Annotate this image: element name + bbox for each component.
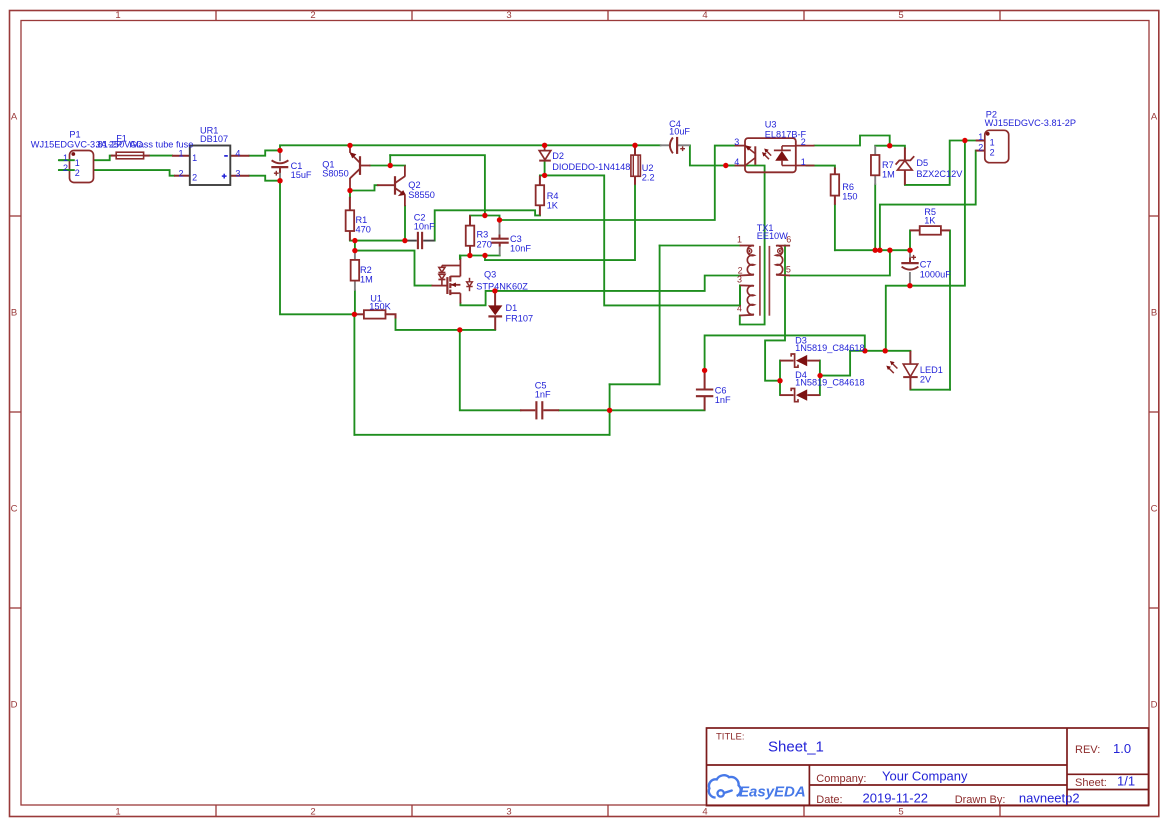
- svg-text:1N5819_C84618: 1N5819_C84618: [795, 343, 864, 353]
- svg-text:2: 2: [75, 168, 80, 178]
- svg-text:navneetp2: navneetp2: [1019, 791, 1080, 806]
- svg-text:A: A: [11, 112, 18, 123]
- svg-text:150K: 150K: [369, 301, 391, 311]
- svg-text:10nF: 10nF: [414, 222, 435, 232]
- svg-text:2V: 2V: [920, 375, 932, 385]
- svg-text:2: 2: [310, 10, 315, 21]
- svg-text:R2: R2: [360, 265, 372, 275]
- svg-text:2019-11-22: 2019-11-22: [863, 791, 929, 806]
- svg-text:Company:: Company:: [816, 773, 866, 785]
- svg-text:Date:: Date:: [816, 794, 842, 806]
- svg-text:Sheet_1: Sheet_1: [768, 739, 824, 756]
- svg-text:LED1: LED1: [920, 365, 943, 375]
- svg-text:Your Company: Your Company: [882, 769, 968, 784]
- svg-text:1: 1: [178, 149, 183, 159]
- svg-text:2: 2: [990, 148, 995, 158]
- svg-text:U2: U2: [642, 163, 654, 173]
- svg-text:1: 1: [115, 10, 120, 21]
- svg-text:5: 5: [898, 10, 903, 21]
- svg-text:R6: R6: [842, 182, 854, 192]
- svg-text:R4: R4: [547, 191, 559, 201]
- svg-text:150: 150: [842, 191, 857, 201]
- svg-text:1nF: 1nF: [535, 389, 551, 399]
- svg-text:2: 2: [801, 137, 806, 147]
- svg-text:Sheet:: Sheet:: [1075, 777, 1107, 789]
- svg-text:1: 1: [192, 153, 197, 163]
- svg-text:1K: 1K: [547, 200, 559, 210]
- svg-text:U3: U3: [765, 120, 777, 130]
- svg-text:TITLE:: TITLE:: [716, 732, 745, 743]
- svg-text:R1: R1: [356, 215, 368, 225]
- svg-text:D: D: [11, 700, 18, 711]
- svg-text:1000uF: 1000uF: [920, 270, 952, 280]
- svg-text:2: 2: [192, 173, 197, 183]
- svg-text:2: 2: [978, 142, 983, 152]
- svg-text:10uF: 10uF: [669, 126, 690, 136]
- svg-text:Q3: Q3: [484, 270, 496, 280]
- svg-text:FR107: FR107: [506, 314, 534, 324]
- svg-text:Q2: Q2: [408, 180, 420, 190]
- svg-text:3: 3: [734, 137, 739, 147]
- svg-text:C: C: [1151, 504, 1158, 515]
- svg-text:C3: C3: [510, 234, 522, 244]
- svg-text:EE10W: EE10W: [757, 231, 788, 241]
- svg-text:3: 3: [506, 10, 511, 21]
- svg-text:270: 270: [477, 240, 492, 250]
- svg-text:1: 1: [801, 157, 806, 167]
- svg-text:EasyEDA: EasyEDA: [739, 784, 806, 801]
- svg-text:1/1: 1/1: [1117, 774, 1135, 789]
- svg-text:D1: D1: [506, 303, 518, 313]
- svg-text:BZX2C12V: BZX2C12V: [916, 169, 963, 179]
- svg-text:1nF: 1nF: [715, 395, 731, 405]
- svg-text:F1: F1: [116, 133, 127, 143]
- svg-text:2.2: 2.2: [642, 173, 655, 183]
- svg-text:2: 2: [63, 163, 68, 173]
- svg-text:A: A: [1151, 112, 1158, 123]
- svg-text:C7: C7: [920, 260, 932, 270]
- svg-text:1.0: 1.0: [1113, 741, 1131, 756]
- svg-text:6: 6: [786, 235, 791, 245]
- svg-text:R7: R7: [882, 160, 894, 170]
- svg-text:4: 4: [702, 807, 707, 818]
- svg-text:1: 1: [990, 137, 995, 147]
- svg-text:DIODEDO-1N4148: DIODEDO-1N4148: [552, 162, 630, 172]
- svg-text:P1: P1: [69, 130, 80, 140]
- svg-text:10nF: 10nF: [510, 244, 531, 254]
- svg-text:4: 4: [702, 10, 707, 21]
- svg-text:1: 1: [978, 132, 983, 142]
- svg-text:DB107: DB107: [200, 134, 228, 144]
- svg-text:D: D: [1151, 700, 1158, 711]
- svg-text:B: B: [11, 308, 17, 319]
- svg-text:2: 2: [178, 169, 183, 179]
- svg-text:C6: C6: [715, 385, 727, 395]
- svg-text:5: 5: [786, 264, 791, 274]
- svg-text:1M: 1M: [360, 275, 373, 285]
- svg-text:3: 3: [737, 274, 742, 284]
- svg-text:Glass tube fuse: Glass tube fuse: [130, 140, 194, 150]
- svg-text:3: 3: [506, 807, 511, 818]
- svg-text:2: 2: [310, 807, 315, 818]
- svg-text:STP4NK60Z: STP4NK60Z: [476, 281, 528, 291]
- svg-text:1: 1: [737, 235, 742, 245]
- svg-text:4: 4: [235, 149, 240, 159]
- svg-text:C: C: [11, 504, 18, 515]
- svg-text:3: 3: [235, 169, 240, 179]
- svg-text:REV:: REV:: [1075, 744, 1100, 756]
- svg-text:1M: 1M: [882, 169, 895, 179]
- svg-text:4: 4: [734, 157, 739, 167]
- svg-text:1: 1: [75, 158, 80, 168]
- svg-text:S8550: S8550: [408, 190, 435, 200]
- svg-text:WJ15EDGVC-3.81-2P: WJ15EDGVC-3.81-2P: [985, 118, 1076, 128]
- svg-text:D5: D5: [916, 158, 928, 168]
- svg-text:15uF: 15uF: [291, 170, 312, 180]
- svg-text:1K: 1K: [924, 216, 936, 226]
- svg-text:4: 4: [737, 304, 742, 314]
- svg-text:R3: R3: [477, 230, 489, 240]
- svg-text:S8050: S8050: [322, 169, 349, 179]
- svg-text:1N5819_C84618: 1N5819_C84618: [795, 378, 864, 388]
- svg-text:Drawn By:: Drawn By:: [955, 794, 1006, 806]
- svg-text:D2: D2: [552, 151, 564, 161]
- svg-text:1: 1: [115, 807, 120, 818]
- svg-text:5: 5: [898, 807, 903, 818]
- svg-text:B: B: [1151, 308, 1157, 319]
- svg-text:470: 470: [356, 225, 371, 235]
- svg-text:1: 1: [63, 153, 68, 163]
